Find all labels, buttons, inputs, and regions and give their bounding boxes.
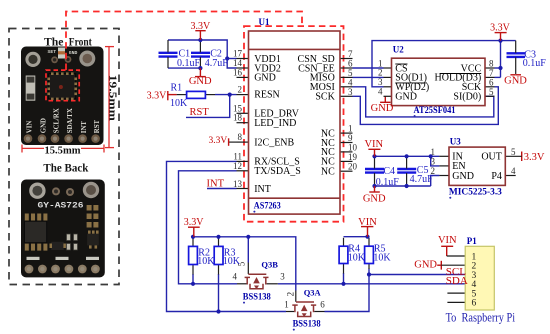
svg-text:6: 6 [320,299,325,309]
svg-text:TX/SDA_S: TX/SDA_S [254,166,301,177]
svg-text:SDA/TX: SDA/TX [67,108,74,133]
svg-text:BSS138: BSS138 [243,291,271,301]
svg-text:U3: U3 [450,136,461,146]
svg-text:3.3V: 3.3V [147,91,168,102]
svg-text:2: 2 [285,292,295,297]
svg-text:C4: C4 [383,166,395,177]
svg-text:12: 12 [233,161,242,171]
svg-text:5: 5 [489,87,494,97]
svg-text:4: 4 [511,166,516,176]
svg-text:0.1uF: 0.1uF [376,177,400,188]
svg-text:3.3V: 3.3V [184,217,205,228]
svg-text:To Raspberry Pi: To Raspberry Pi [446,310,516,324]
svg-text:3: 3 [280,272,285,282]
svg-text:10: 10 [348,142,358,152]
svg-text:GND: GND [371,103,394,114]
svg-text:4: 4 [233,272,238,282]
svg-text:4: 4 [378,87,383,97]
svg-text:SCL/RX: SCL/RX [53,108,60,133]
svg-text:INT: INT [254,184,271,195]
svg-text:SET: SET [48,49,57,55]
svg-text:13: 13 [233,179,243,189]
svg-text:3.3V: 3.3V [208,136,227,146]
svg-text:The: The [44,34,64,48]
svg-text:3: 3 [378,77,383,87]
svg-text:1: 1 [431,147,436,157]
svg-text:0.1uF: 0.1uF [523,58,547,69]
svg-text:I2C_ENB: I2C_ENB [254,137,294,148]
svg-text:LED_IND: LED_IND [254,118,296,129]
svg-text:10K: 10K [170,98,188,109]
svg-text:VIN: VIN [364,139,383,150]
svg-text:BSS138: BSS138 [293,318,321,328]
svg-text:3: 3 [431,157,436,167]
svg-text:GND: GND [254,73,276,84]
svg-text:VIN: VIN [438,235,457,246]
svg-text:3: 3 [348,87,353,97]
svg-text:10K: 10K [197,256,215,267]
svg-text:VIN: VIN [26,121,33,134]
svg-text:4: 4 [348,77,353,87]
svg-text:INT: INT [81,121,88,134]
svg-text:U1: U1 [259,17,270,27]
svg-text:GY-AS726: GY-AS726 [38,202,84,211]
svg-text:19.5mm: 19.5mm [107,75,119,121]
svg-text:SDA: SDA [446,275,468,287]
svg-text:8: 8 [238,132,243,142]
svg-text:6: 6 [489,78,494,88]
svg-text:18: 18 [233,113,243,123]
svg-text:0.1uF: 0.1uF [177,58,201,69]
svg-text:R1: R1 [171,82,183,93]
svg-text:Q3A: Q3A [304,287,322,297]
svg-text:VIN: VIN [358,217,377,228]
svg-text:RST: RST [190,107,210,118]
svg-text:GND: GND [504,76,527,87]
svg-text:10K: 10K [373,253,391,264]
svg-text:RST: RST [94,120,101,134]
svg-text:3.3V: 3.3V [191,21,212,32]
svg-text:20: 20 [348,162,358,172]
svg-text:16: 16 [233,67,243,77]
svg-text:4.7uF: 4.7uF [205,58,229,69]
svg-text:P1: P1 [467,236,477,246]
svg-text:NC: NC [321,167,335,178]
svg-text:AS7263: AS7263 [254,201,281,211]
svg-text:3.3V: 3.3V [524,152,545,163]
svg-text:The Back: The Back [43,161,88,175]
svg-text:2: 2 [238,85,243,95]
svg-text:10K: 10K [348,253,366,264]
svg-text:RESN: RESN [254,89,280,100]
svg-text:5: 5 [511,147,516,157]
svg-text:AT25SF041: AT25SF041 [414,105,456,115]
svg-text:GND: GND [452,171,474,182]
svg-text:GND: GND [414,260,437,271]
svg-text:Front: Front [69,34,92,48]
svg-text:17: 17 [233,49,243,59]
svg-text:3.3V: 3.3V [490,22,511,33]
svg-text:SCK: SCK [315,92,335,103]
svg-text:U2: U2 [393,44,404,54]
svg-text:15.5mm: 15.5mm [45,145,81,157]
svg-text:GND: GND [69,50,78,56]
svg-text:10K: 10K [223,256,241,267]
svg-text:P4: P4 [491,171,502,182]
svg-text:OUT: OUT [481,152,502,163]
svg-text:INT: INT [207,179,225,190]
svg-text:6: 6 [472,299,477,309]
svg-text:4.7uF: 4.7uF [410,174,434,185]
svg-text:GND: GND [189,76,212,87]
svg-text:19: 19 [348,152,358,162]
svg-text:SI(D0): SI(D0) [453,92,481,103]
svg-text:GND: GND [363,194,386,205]
svg-text:Q3B: Q3B [261,260,278,270]
svg-text:1: 1 [284,299,289,309]
svg-text:GND: GND [395,92,417,103]
svg-text:GND: GND [40,118,47,133]
svg-text:MIC5225-3.3: MIC5225-3.3 [449,186,503,196]
svg-text:7: 7 [348,49,353,59]
